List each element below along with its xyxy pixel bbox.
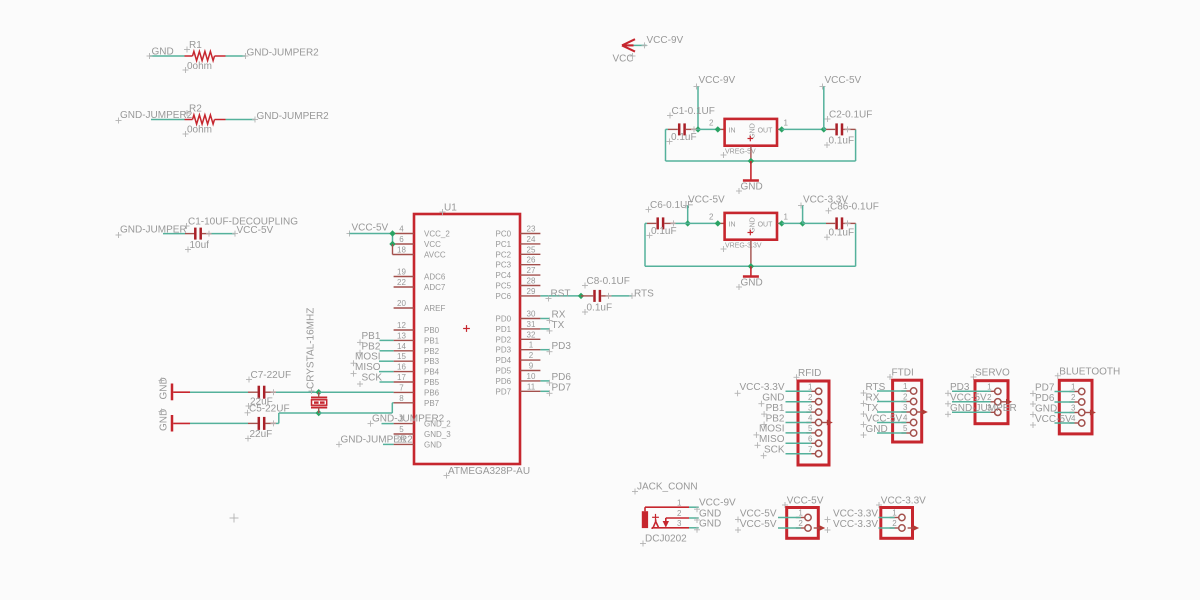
svg-text:C8-0.1UF: C8-0.1UF xyxy=(587,276,630,287)
wire C1 to node xyxy=(697,128,699,130)
junction crystal bottom xyxy=(316,410,322,416)
svg-text:GND: GND xyxy=(159,409,170,431)
svg-text:1: 1 xyxy=(808,383,813,392)
svg-text:0.1uF: 0.1uF xyxy=(651,226,677,237)
svg-text:GND: GND xyxy=(424,440,442,449)
wire corner to C1cap xyxy=(666,128,678,130)
wire node to C2 xyxy=(824,128,835,130)
svg-text:2: 2 xyxy=(529,351,534,360)
wire VCC-3.3V drop xyxy=(802,206,804,224)
svg-text:PD7: PD7 xyxy=(552,383,572,394)
svg-text:2: 2 xyxy=(709,212,714,221)
junction reg2 gnd xyxy=(748,263,754,269)
value 0.1uF (C6) xyxy=(647,226,677,239)
svg-text:MOSI: MOSI xyxy=(759,424,785,435)
pin 2 PD6 (BLUETOOTH) xyxy=(1030,393,1085,407)
junction reg1 pin1 xyxy=(779,126,785,132)
svg-text:PB1: PB1 xyxy=(424,336,440,345)
value 0.1uF (C8) xyxy=(582,303,612,316)
junction VCC-5V node (reg2) xyxy=(685,220,691,226)
connector VCC-3.3V title xyxy=(876,496,926,509)
pin 2 VCC-3.3V (jumper) xyxy=(825,519,920,533)
svg-text:1: 1 xyxy=(903,382,908,391)
svg-text:PB7: PB7 xyxy=(424,399,440,408)
svg-text:PB3: PB3 xyxy=(424,357,440,366)
svg-text:29: 29 xyxy=(527,287,536,296)
svg-text:PB6: PB6 xyxy=(424,388,440,397)
svg-text:2: 2 xyxy=(808,393,813,402)
svg-text:SCK: SCK xyxy=(362,373,383,384)
svg-text:27: 27 xyxy=(527,266,536,275)
svg-text:PC4: PC4 xyxy=(496,271,512,280)
pin 24 PC1 U1 xyxy=(496,235,541,249)
net VCC-9V (jack) xyxy=(699,498,736,509)
wire reg1 frame right xyxy=(751,129,856,161)
resistor R1 xyxy=(185,51,226,60)
net VCC-5V label (reg2) xyxy=(683,194,725,208)
pin 2 VCC-5V (jumper) xyxy=(735,519,825,533)
svg-text:2: 2 xyxy=(798,519,803,528)
net GND-JUMPER (C1 left) xyxy=(116,224,187,238)
net PB2 label xyxy=(357,341,381,356)
svg-text:PC6: PC6 xyxy=(496,292,512,301)
junction VCC-3.3V node xyxy=(799,220,805,226)
svg-text:4: 4 xyxy=(903,414,908,423)
svg-text:PB5: PB5 xyxy=(424,378,440,387)
svg-text:ATMEGA328P-AU: ATMEGA328P-AU xyxy=(448,466,530,477)
pin 27 PC4 U1 xyxy=(496,266,541,280)
svg-text:PD2: PD2 xyxy=(496,335,512,344)
wire jack pin3 stub xyxy=(689,527,700,533)
wire VCC-5V to pin4 xyxy=(350,233,393,235)
ground (crystal top) xyxy=(159,377,191,400)
junction reg2 pin1 xyxy=(779,220,785,226)
svg-text:RTS: RTS xyxy=(634,289,654,300)
svg-text:8: 8 xyxy=(399,394,404,403)
wire GND-JUMPER2 to R2 xyxy=(151,119,185,121)
svg-text:2: 2 xyxy=(892,519,897,528)
svg-text:5: 5 xyxy=(399,425,404,434)
svg-text:0.1uF: 0.1uF xyxy=(587,303,613,314)
svg-text:0ohm: 0ohm xyxy=(187,61,212,72)
svg-text:PB2: PB2 xyxy=(362,341,381,352)
net VCC-5V label (reg1) xyxy=(820,75,862,90)
net GND-JUMPER2 (R1 right) xyxy=(247,48,320,59)
net PB1 label xyxy=(357,331,381,346)
junction reg2 pin2 xyxy=(715,220,721,226)
connector FTDI outline xyxy=(893,380,922,442)
value 0ohm R1 xyxy=(183,61,213,73)
pin 19 ADC6 U1 xyxy=(394,268,446,282)
value DCJ0202 xyxy=(640,534,687,547)
svg-text:0.1uF: 0.1uF xyxy=(671,132,697,143)
wire VCC arrow xyxy=(634,44,647,46)
capacitor C6 0.1uF xyxy=(658,217,677,229)
svg-text:1: 1 xyxy=(1071,383,1076,392)
svg-text:24: 24 xyxy=(527,235,536,244)
pin 1 RTS (FTDI) xyxy=(861,382,917,396)
svg-text:SERVO: SERVO xyxy=(975,368,1010,379)
net PD3 label xyxy=(547,341,572,355)
net TX label xyxy=(547,320,565,334)
connector SERVO outline xyxy=(975,381,1008,424)
svg-text:1: 1 xyxy=(987,383,992,392)
svg-text:2: 2 xyxy=(903,393,908,402)
label C5-22UF xyxy=(245,403,290,416)
wire reg1 frame left xyxy=(666,129,751,161)
pin 1 PD3 (SERVO) xyxy=(945,382,1001,396)
jack pin 2 line xyxy=(663,518,689,528)
value 0.1uF (C1) xyxy=(667,132,697,145)
net GND-JUMPER2 (pin3) wire xyxy=(382,423,394,425)
net VCC-5V (C1 right) xyxy=(237,225,274,236)
svg-text:PD3: PD3 xyxy=(552,341,572,352)
pin 25 PC2 U1 xyxy=(496,245,541,259)
svg-text:0ohm: 0ohm xyxy=(187,125,212,136)
pin GND stub reg1 xyxy=(750,146,752,161)
value 0.1uF (C86) xyxy=(824,228,854,241)
svg-text:OUT: OUT xyxy=(758,128,774,135)
svg-text:22uF: 22uF xyxy=(250,429,273,440)
pin 32 PD2 U1 xyxy=(496,330,541,344)
pin 15 PB3 U1 xyxy=(394,352,440,366)
connector FTDI title xyxy=(887,368,914,381)
svg-text:BLUETOOTH: BLUETOOTH xyxy=(1059,366,1120,377)
label U1 xyxy=(440,203,458,216)
capacitor C1 0.1uF xyxy=(679,123,697,135)
svg-text:PB2: PB2 xyxy=(766,413,785,424)
wire corner to C6 xyxy=(645,222,656,224)
capacitor C5 22uF xyxy=(259,417,277,430)
origin cross reg1 xyxy=(748,136,754,142)
pin 4 VCC-5V (FTDI) xyxy=(861,413,917,427)
svg-text:AREF: AREF xyxy=(424,304,445,313)
svg-text:VCC-5V: VCC-5V xyxy=(688,194,725,205)
value 0.1uF (C2) xyxy=(824,135,854,148)
svg-text:23: 23 xyxy=(527,225,536,234)
value 22uF (C5) xyxy=(245,429,272,442)
svg-text:GND: GND xyxy=(1035,403,1057,414)
wire GND-JUMPER to C1 xyxy=(163,233,195,235)
pin 10 PD6 U1 xyxy=(496,372,541,386)
wire RST node to C8 xyxy=(581,295,593,297)
svg-text:PD6: PD6 xyxy=(552,372,572,383)
svg-text:VCC-5V: VCC-5V xyxy=(352,223,389,234)
wire GND to C7 xyxy=(190,391,258,393)
wire GND to C5 xyxy=(190,422,258,424)
svg-text:18: 18 xyxy=(397,246,406,255)
svg-text:16: 16 xyxy=(397,363,406,372)
net TX wire xyxy=(540,328,549,330)
capacitor C2 0.1uF xyxy=(837,123,856,135)
wire pin4 to pin6 xyxy=(392,234,394,245)
svg-text:13: 13 xyxy=(397,331,406,340)
svg-text:19: 19 xyxy=(397,268,406,277)
pin 1 VCC-3.3V (RFID) xyxy=(735,382,822,396)
svg-text:GND: GND xyxy=(152,47,174,58)
pin GND stub reg2 xyxy=(750,240,752,267)
pin 8 PB7 U1 xyxy=(394,394,440,408)
svg-text:PC0: PC0 xyxy=(496,230,512,239)
net GND-JUMPER2 (pin21) wire xyxy=(383,443,394,445)
capacitor C7 22uF xyxy=(259,386,277,399)
net MOSI label xyxy=(351,352,381,367)
svg-text:15: 15 xyxy=(397,352,406,361)
svg-text:17: 17 xyxy=(397,373,406,382)
svg-text:3: 3 xyxy=(677,519,682,528)
net GND (jack pin3) xyxy=(699,518,721,529)
wire VCC-5V drop (reg1) xyxy=(823,87,825,130)
svg-text:VCC-5V: VCC-5V xyxy=(740,508,777,519)
wire node to pin2 reg2 xyxy=(688,222,725,224)
svg-text:25: 25 xyxy=(527,245,536,254)
svg-text:PD5: PD5 xyxy=(496,367,512,376)
svg-text:DCJ0202: DCJ0202 xyxy=(645,534,687,545)
svg-text:IN: IN xyxy=(729,128,736,135)
svg-text:GND_3: GND_3 xyxy=(424,430,451,439)
svg-text:U1: U1 xyxy=(444,203,457,214)
wire VCC-9V drop xyxy=(697,87,699,130)
jack tip contact xyxy=(651,514,659,528)
pin 6 VCC U1 xyxy=(393,235,442,249)
connector BLUETOOTH outline xyxy=(1059,380,1092,434)
ground (crystal bottom) xyxy=(159,409,191,432)
svg-text:PD4: PD4 xyxy=(496,356,512,365)
svg-text:31: 31 xyxy=(527,320,536,329)
capacitor C1 10uF xyxy=(195,228,212,240)
label C86-0.1UF xyxy=(826,201,879,214)
svg-text:5: 5 xyxy=(808,424,813,433)
svg-text:PD6: PD6 xyxy=(496,377,512,386)
net PD6 label xyxy=(547,372,572,386)
pin 20 AREF U1 xyxy=(394,299,446,313)
svg-text:4: 4 xyxy=(808,414,813,423)
connector VCC-5V outline xyxy=(787,508,819,539)
jack pin 3 line xyxy=(652,527,689,529)
wire pin1 to VCC-5V node xyxy=(782,128,824,130)
svg-text:10: 10 xyxy=(527,372,536,381)
pin 5 GND (FTDI) xyxy=(861,424,917,438)
svg-text:JACK_CONN: JACK_CONN xyxy=(637,482,698,493)
svg-text:VCC-3.3V: VCC-3.3V xyxy=(881,496,926,507)
pin 2 label reg2 xyxy=(709,212,714,221)
net PD6 wire xyxy=(540,380,549,382)
svg-text:PB4: PB4 xyxy=(424,368,440,377)
net PB1 wire xyxy=(380,339,394,341)
svg-text:PC5: PC5 xyxy=(496,282,512,291)
wire jack pin2 stub xyxy=(689,517,700,523)
svg-text:OUT: OUT xyxy=(758,222,774,229)
svg-text:1: 1 xyxy=(892,509,897,518)
ground (reg2) xyxy=(736,266,763,290)
junction reg1 gnd xyxy=(748,158,754,164)
svg-text:5: 5 xyxy=(903,424,908,433)
pin 21 GND U1 xyxy=(394,435,442,449)
crystal Y1 16MHz xyxy=(311,392,327,413)
pin 9 PD5 U1 xyxy=(496,362,541,376)
pin 3 GND (BLUETOOTH) xyxy=(1030,403,1096,417)
svg-text:GND-JUMPER2: GND-JUMPER2 xyxy=(257,111,330,122)
net MISO wire xyxy=(379,371,394,373)
label R2 xyxy=(184,104,202,117)
svg-text:TX: TX xyxy=(552,320,565,331)
svg-text:4: 4 xyxy=(1071,414,1076,423)
svg-text:PD1: PD1 xyxy=(496,325,512,334)
pin 6 MISO (RFID) xyxy=(755,434,822,448)
label C2-0.1UF xyxy=(825,110,873,122)
svg-text:6: 6 xyxy=(808,435,813,444)
svg-text:PC1: PC1 xyxy=(496,240,512,249)
pin 1 line reg2 xyxy=(777,222,782,224)
svg-text:GND-JUMPER2: GND-JUMPER2 xyxy=(247,48,320,59)
ground (reg1) xyxy=(736,161,763,194)
connector RFID title xyxy=(794,368,822,381)
svg-text:30: 30 xyxy=(527,310,536,319)
svg-text:PB0: PB0 xyxy=(424,326,440,335)
net VCC-3.3V label (reg2) xyxy=(798,194,848,208)
label VREG-5V xyxy=(721,149,757,158)
svg-text:VCC-9V: VCC-9V xyxy=(699,75,736,86)
jack pin numbers xyxy=(677,498,682,528)
svg-text:GND: GND xyxy=(741,182,763,193)
junction pin6 xyxy=(389,241,395,247)
svg-text:GND-JUMPER2: GND-JUMPER2 xyxy=(341,435,414,446)
pin GND label reg1 xyxy=(749,123,756,139)
net PB2 wire xyxy=(380,350,394,352)
pin 4 VCC_2 U1 xyxy=(393,225,451,239)
connector VCC-5V title xyxy=(782,496,824,509)
svg-text:3: 3 xyxy=(808,403,813,412)
svg-text:PB1: PB1 xyxy=(766,403,785,414)
svg-text:C7-22UF: C7-22UF xyxy=(251,370,292,381)
svg-text:6: 6 xyxy=(399,235,404,244)
pin 1 label reg1 xyxy=(784,118,789,127)
svg-text:10uf: 10uf xyxy=(190,240,210,251)
pin 1 VCC-3.3V (jumper) xyxy=(825,508,906,522)
svg-text:2: 2 xyxy=(1071,393,1076,402)
pin 2 label reg1 xyxy=(709,118,714,127)
svg-text:VREG-5V: VREG-5V xyxy=(725,149,756,156)
svg-text:VCC-3.3V: VCC-3.3V xyxy=(833,508,878,519)
svg-text:PB1: PB1 xyxy=(362,331,381,342)
connector BLUETOOTH title xyxy=(1055,366,1120,379)
pin IN label reg1 xyxy=(729,128,736,135)
connector VCC-3.3V outline xyxy=(881,508,913,539)
svg-text:FTDI: FTDI xyxy=(892,368,914,379)
svg-text:C86-0.1UF: C86-0.1UF xyxy=(830,201,879,212)
svg-text:C2-0.1UF: C2-0.1UF xyxy=(829,110,872,121)
svg-text:3: 3 xyxy=(903,403,908,412)
pin 2 RX (FTDI) xyxy=(861,392,917,406)
svg-text:VCC-5V: VCC-5V xyxy=(237,225,274,236)
junction pin4 xyxy=(389,230,395,236)
junction VCC-5V node (reg1) xyxy=(821,126,827,132)
svg-text:MISO: MISO xyxy=(759,434,785,445)
label C7-22UF xyxy=(246,370,291,382)
svg-text:VCC-3.3V: VCC-3.3V xyxy=(739,382,784,393)
pin 4 VCC-5V (BLUETOOTH) xyxy=(1030,414,1085,428)
wire crystal to pin8 xyxy=(319,403,394,413)
wire pin6 to pin18 xyxy=(392,244,394,255)
label CRYSTAL-16MHZ xyxy=(306,308,317,394)
pin 26 PC3 U1 xyxy=(496,256,541,270)
svg-text:9: 9 xyxy=(529,362,534,371)
pin 3 PB1 (RFID) xyxy=(761,403,822,417)
pin 22 ADC7 U1 xyxy=(394,278,446,292)
svg-text:12: 12 xyxy=(397,321,406,330)
net MOSI wire xyxy=(379,360,394,362)
pin 12 PB0 U1 xyxy=(394,321,440,335)
net VCC-5V (U1 power) xyxy=(347,223,389,237)
svg-text:7: 7 xyxy=(808,445,813,454)
net RX label xyxy=(547,310,566,324)
net GND-JUMPER2 (pin3) label xyxy=(368,414,445,427)
net SCK label xyxy=(357,373,382,388)
svg-text:PC3: PC3 xyxy=(496,261,512,270)
wire node to pin2 xyxy=(698,128,725,130)
label C1-0.1UF xyxy=(667,106,715,119)
wire GND to R1 xyxy=(147,53,185,59)
svg-text:TX: TX xyxy=(866,403,879,414)
net GND (jack pin2) xyxy=(699,509,721,520)
pin 28 PC5 U1 xyxy=(496,277,541,291)
net GND-JUMPER2 (R2 right) xyxy=(257,111,330,122)
svg-text:28: 28 xyxy=(527,277,536,286)
svg-text:CRYSTAL-16MHZ: CRYSTAL-16MHZ xyxy=(306,308,317,389)
junction VCC-9V node xyxy=(695,126,701,132)
wire node to C86 xyxy=(803,222,836,224)
svg-text:7: 7 xyxy=(399,383,404,392)
wire reg2 frame left xyxy=(645,223,751,266)
junction reg1 pin2 xyxy=(715,126,721,132)
pin 23 PC0 U1 xyxy=(496,225,541,239)
svg-text:RFID: RFID xyxy=(798,368,821,379)
svg-text:IN: IN xyxy=(729,222,736,229)
pin 2 PD4 U1 xyxy=(496,351,541,365)
svg-text:VCC-9V: VCC-9V xyxy=(699,498,736,509)
svg-text:MOSI: MOSI xyxy=(355,352,381,363)
svg-text:VCC: VCC xyxy=(613,54,634,65)
svg-text:1: 1 xyxy=(529,341,534,350)
pin 1 label reg2 xyxy=(784,212,789,221)
node GND label xyxy=(152,47,174,58)
svg-text:GND-JUMPER2: GND-JUMPER2 xyxy=(372,414,445,425)
svg-text:PD7: PD7 xyxy=(1035,382,1055,393)
svg-text:1: 1 xyxy=(677,498,682,507)
wire C7 to crystal xyxy=(276,391,319,393)
svg-text:11: 11 xyxy=(527,382,536,391)
net VCC-9V label (reg1) xyxy=(694,75,736,90)
pin 31 PD1 U1 xyxy=(496,320,541,334)
wire C1 to VCC-5V xyxy=(212,231,239,237)
svg-text:ADC7: ADC7 xyxy=(424,283,446,292)
connector SERVO title xyxy=(971,368,1011,381)
pin 7 SCK (RFID) xyxy=(761,445,822,459)
svg-text:C1-0.1UF: C1-0.1UF xyxy=(672,106,715,117)
svg-text:2: 2 xyxy=(677,509,682,518)
pin 7 PB6 U1 xyxy=(394,383,440,397)
pin 16 PB4 U1 xyxy=(394,363,440,377)
value 10uf xyxy=(185,240,209,253)
origin cross U1 xyxy=(463,325,470,332)
pin 5 GND_3 U1 xyxy=(394,425,452,439)
wire VCC-5V drop (reg2) xyxy=(687,206,689,224)
svg-text:1: 1 xyxy=(798,509,803,518)
net PD7 wire xyxy=(540,390,549,392)
svg-text:20: 20 xyxy=(397,299,406,308)
net VCC-9V label (top) xyxy=(642,35,684,48)
svg-text:VCC-5V: VCC-5V xyxy=(740,519,777,530)
